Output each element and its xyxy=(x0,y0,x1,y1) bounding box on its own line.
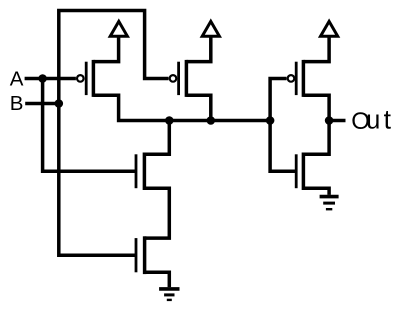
svg-text:B: B xyxy=(10,92,24,115)
svg-text:A: A xyxy=(10,67,24,90)
svg-text:Out: Out xyxy=(351,105,391,135)
